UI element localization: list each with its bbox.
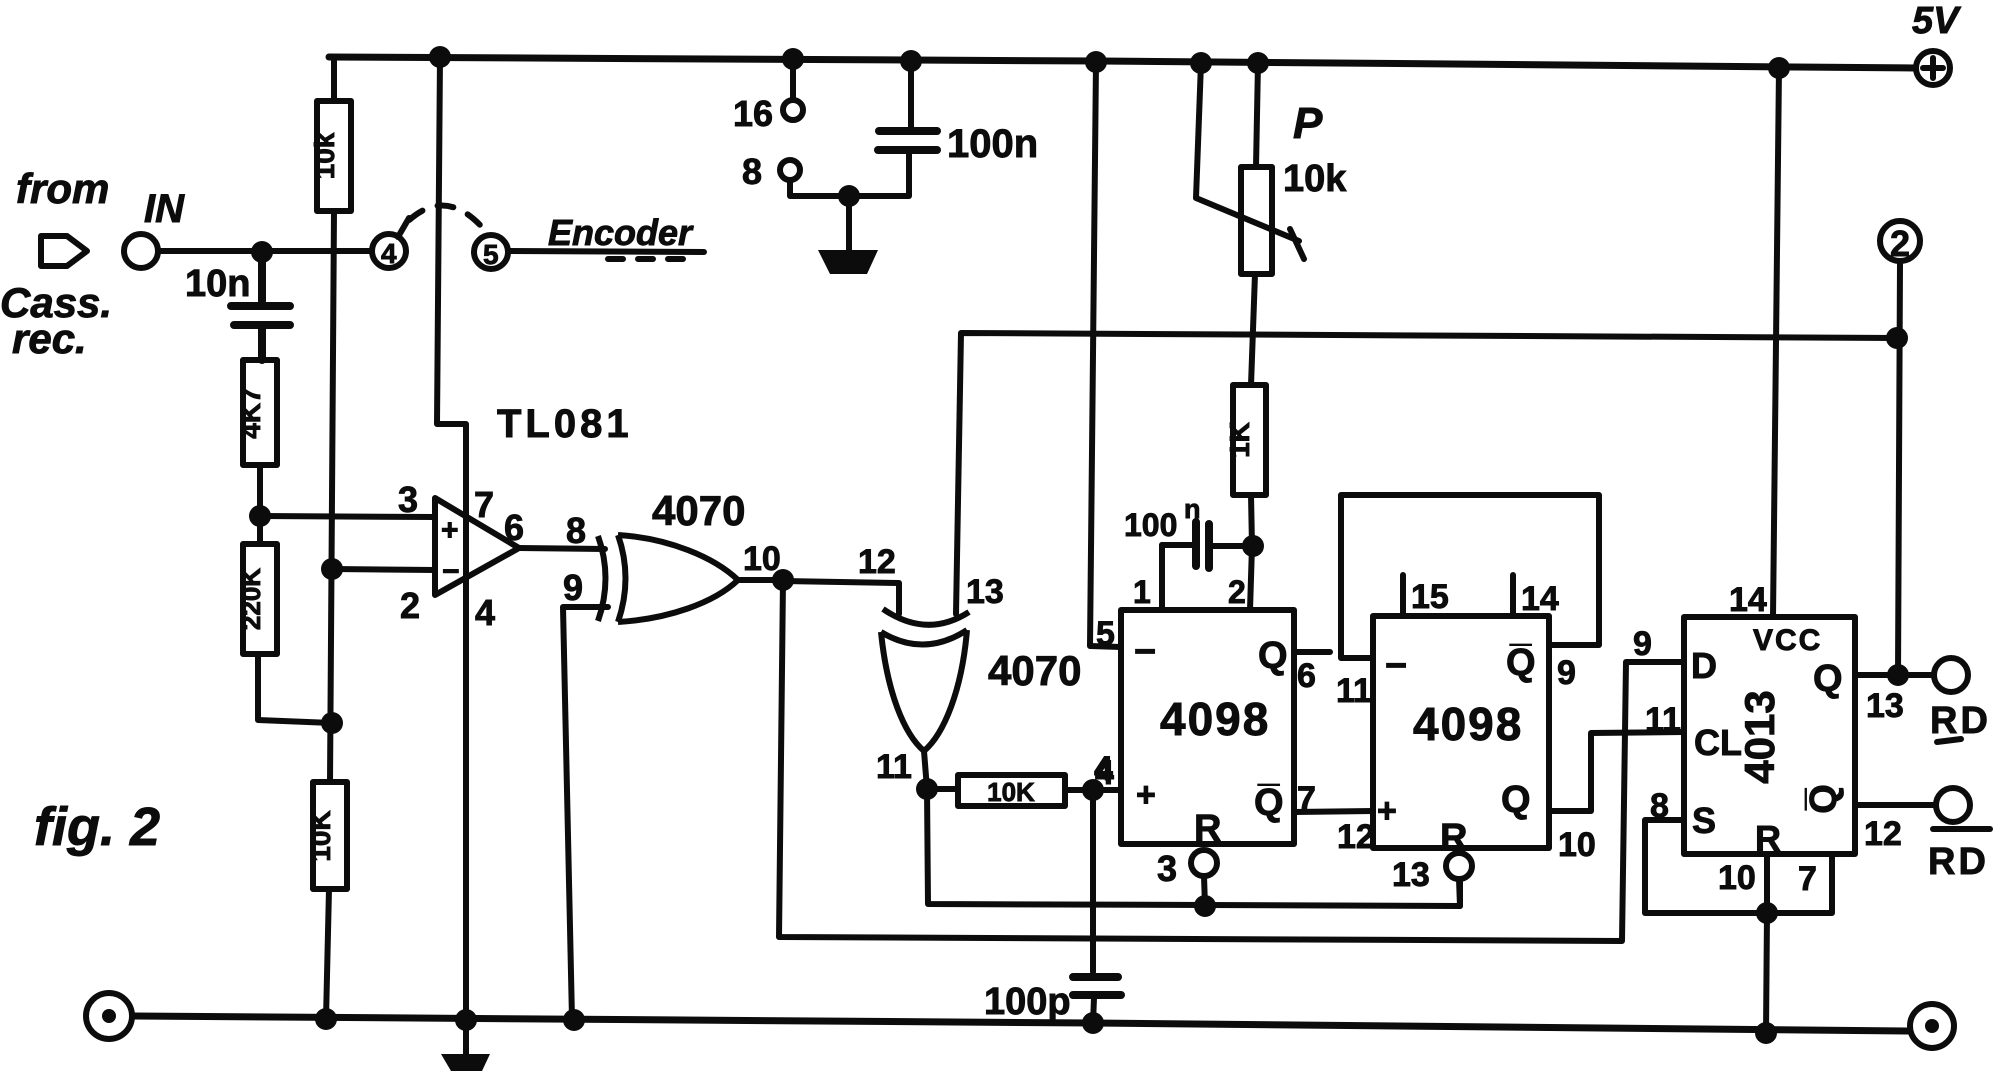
- node: feedback / terminal-2 junction: [1886, 327, 1908, 349]
- resistor 10K (trigger): [927, 786, 958, 792]
- svg-text:Encoder: Encoder: [548, 212, 694, 253]
- node: 220K bottom junction: [321, 712, 343, 734]
- node: op-amp - input junction: [321, 558, 343, 580]
- terminal IN: [124, 234, 158, 268]
- wire: XOR1 out to 4013 D (pin 9): [779, 580, 1684, 941]
- node: rail junction pot top: [1247, 52, 1269, 74]
- wire: 5V to 4098 pin 5: [1090, 62, 1121, 647]
- ground symbol top: [846, 196, 852, 251]
- svg-text:RD: RD: [1928, 841, 1989, 883]
- svg-text:5V: 5V: [1912, 0, 1961, 42]
- terminal RD: [1934, 658, 1968, 692]
- wire: 4013 Q-bar pin 12 to RD-bar terminal: [1855, 802, 1935, 808]
- wire: 0V bottom rail: [134, 1016, 1909, 1031]
- node: IN / 10n junction: [251, 241, 273, 263]
- svg-text:1: 1: [1133, 574, 1151, 610]
- svg-text:1K: 1K: [1224, 422, 1255, 458]
- wire: XOR2 output node 11: [924, 751, 927, 789]
- svg-text:+: +: [1377, 792, 1397, 830]
- svg-text:10K: 10K: [305, 810, 336, 861]
- node: 4098 pin 2 timing node: [1242, 535, 1264, 557]
- svg-text:7: 7: [1798, 860, 1817, 898]
- wire: IN to connector pin 4: [158, 248, 371, 254]
- svg-text:S: S: [1692, 800, 1716, 841]
- svg-text:10: 10: [1558, 826, 1596, 864]
- capacitor 100n (timing): [1162, 545, 1253, 546]
- svg-text:13: 13: [966, 573, 1004, 611]
- svg-text:−: −: [1385, 645, 1407, 687]
- svg-text:100p: 100p: [984, 981, 1071, 1023]
- wire: 5V top supply rail: [329, 57, 1915, 68]
- svg-text:2: 2: [400, 585, 420, 626]
- svg-text:7: 7: [474, 484, 494, 525]
- svg-text:−: −: [1134, 631, 1156, 673]
- node: bottom rail junction op-amp V-: [455, 1009, 477, 1031]
- svg-text:from: from: [16, 165, 109, 212]
- svg-text:Q̅: Q̅: [1254, 782, 1284, 824]
- svg-text:R: R: [1194, 808, 1221, 850]
- pin 14 stub: [1510, 575, 1516, 616]
- svg-text:10k: 10k: [309, 132, 340, 179]
- svg-text:4098: 4098: [1413, 698, 1523, 750]
- node: rail junction 100n cap: [900, 50, 922, 72]
- wire: 4098-2 Q pin 10 to 4013 CL pin 11: [1549, 732, 1684, 811]
- wire: pin2 stub: [1250, 546, 1252, 610]
- capacitor 100p: [1090, 790, 1096, 972]
- wire: terminal 2 drop: [1898, 263, 1900, 675]
- svg-text:Q: Q: [1813, 658, 1843, 700]
- wire: 5V to 4013 Vcc pin 14: [1773, 68, 1779, 617]
- svg-text:15: 15: [1411, 578, 1449, 616]
- node: bottom rail junction XOR pin9: [563, 1009, 585, 1031]
- svg-text:6: 6: [1297, 657, 1316, 695]
- reset pin 3 bubble of 4098 #1: [1191, 850, 1217, 876]
- svg-text:4098: 4098: [1160, 693, 1270, 745]
- svg-text:4: 4: [1095, 754, 1114, 792]
- svg-text:14: 14: [1521, 580, 1559, 618]
- svg-text:D: D: [1691, 645, 1717, 686]
- svg-text:4013: 4013: [1736, 690, 1783, 783]
- IC 4013 flip-flop: [1684, 617, 1855, 854]
- pin 15 stub: [1400, 575, 1406, 616]
- reset pin 13 bubble of 4098 #2: [1446, 853, 1472, 879]
- wire: pin 5 to encoder: [509, 251, 704, 252]
- op-amp U1 TL081: [435, 498, 519, 595]
- svg-text:rec.: rec.: [12, 315, 87, 362]
- node: Q / terminal-2 drop junction: [1887, 664, 1909, 686]
- terminal 0V left: [86, 993, 132, 1039]
- wire: pin1 stub: [1159, 545, 1165, 610]
- svg-text:RD: RD: [1930, 700, 1991, 742]
- terminal RD-bar: [1936, 788, 1970, 822]
- svg-text:8: 8: [742, 151, 762, 192]
- svg-text:+: +: [1136, 776, 1156, 814]
- svg-text:4K7: 4K7: [235, 387, 266, 438]
- svg-text:n: n: [1184, 494, 1201, 524]
- resistor 10k (top left pull-up): [331, 57, 337, 101]
- svg-text:11: 11: [876, 748, 912, 786]
- node: rail junction 4098 pin5 drop: [1085, 51, 1107, 73]
- svg-text:P: P: [1293, 99, 1323, 148]
- wire: XOR1 pin 9 to ground rail: [563, 607, 608, 1019]
- svg-text:Q̅: Q̅: [1506, 642, 1536, 684]
- wire: to op-amp pin 2: [332, 569, 435, 570]
- wire: XOR1 output node 10: [738, 577, 783, 583]
- svg-text:5: 5: [1096, 615, 1115, 653]
- svg-text:4070: 4070: [988, 647, 1081, 694]
- svg-text:3: 3: [1157, 848, 1177, 889]
- svg-text:Q: Q: [1258, 635, 1288, 677]
- jumper dashed arc pins 4-5: [405, 205, 481, 226]
- potentiometer P 10k: [1256, 63, 1258, 167]
- svg-text:9: 9: [1633, 625, 1652, 663]
- pin 6 stub (Q output nc): [1294, 649, 1330, 655]
- svg-text:3: 3: [398, 479, 418, 520]
- svg-text:TL081: TL081: [497, 402, 633, 446]
- svg-text:10n: 10n: [185, 263, 250, 305]
- svg-text:4: 4: [381, 238, 397, 269]
- svg-text:5: 5: [483, 239, 499, 270]
- resistor 10K (bottom divider): [313, 782, 347, 889]
- svg-text:100n: 100n: [947, 122, 1038, 166]
- svg-text:4: 4: [475, 592, 495, 633]
- wire: op-amp supply line pins 7/4: [437, 57, 466, 1020]
- IC 4098 #1 monostable: [1121, 610, 1294, 844]
- svg-text:100: 100: [1124, 507, 1177, 543]
- resistor 4K7: [243, 360, 277, 465]
- wire: to op-amp pin 3: [260, 516, 435, 517]
- terminal 2: [1880, 221, 1920, 261]
- node: reset line junction at 4098-1: [1194, 895, 1216, 917]
- pin 8 stub to ground: [780, 160, 800, 180]
- svg-text:12: 12: [858, 543, 896, 581]
- svg-text:10: 10: [1718, 859, 1756, 897]
- resistor 220K: [257, 516, 263, 544]
- node: op-amp + input junction: [249, 505, 271, 527]
- node: reset-ground junction: [1756, 902, 1778, 924]
- pot wiper from 5V: [1196, 63, 1304, 259]
- svg-text:11: 11: [1645, 701, 1681, 739]
- svg-text:2: 2: [1890, 223, 1910, 264]
- node: rail junction above op-amp supply: [429, 46, 451, 68]
- node: rail junction pin16 drop: [782, 48, 804, 70]
- XOR gate 4070 B: [883, 609, 969, 625]
- svg-text:13: 13: [1866, 687, 1904, 725]
- connector pin 5: [474, 235, 508, 269]
- svg-text:2: 2: [1228, 574, 1246, 610]
- wire: XOR2 output to monostable resets: [927, 789, 1460, 906]
- terminal 5V plus: [1916, 51, 1950, 85]
- wire: 4013 S pin 8 / R pin 10 / pin 7 to ground: [1645, 820, 1832, 1033]
- svg-text:16: 16: [733, 93, 773, 134]
- svg-text:11: 11: [1336, 672, 1372, 710]
- svg-text:10k: 10k: [1283, 158, 1347, 200]
- wire: bias divider vertical: [330, 211, 334, 782]
- pin 16 stub of encoder IC: [790, 59, 796, 100]
- wire: XOR1 out to XOR2 pin 12: [783, 581, 899, 614]
- svg-text:−: −: [442, 555, 460, 588]
- XOR gate 4070 A: [598, 536, 606, 621]
- node: pin8 ground junction: [838, 185, 860, 207]
- svg-text:6: 6: [504, 507, 524, 548]
- svg-text:7: 7: [1297, 780, 1316, 818]
- node: bottom rail junction 100p: [1082, 1012, 1104, 1034]
- svg-text:Q: Q: [1501, 779, 1531, 821]
- wire: op-amp output to XOR1 pin 8: [519, 548, 605, 549]
- icon: arrow from cassette recorder: [41, 236, 87, 266]
- wire: feedback from RD line to XOR2 pin 13: [956, 333, 1897, 614]
- resistor 1K: [1233, 385, 1266, 495]
- capacitor 100n (supply decoupling): [908, 61, 914, 127]
- svg-text:14: 14: [1729, 581, 1767, 619]
- svg-text:12: 12: [1337, 818, 1375, 856]
- svg-text:IN: IN: [144, 187, 185, 231]
- node: rail junction 4013 Vcc drop: [1768, 57, 1790, 79]
- svg-text:4070: 4070: [652, 487, 745, 534]
- capacitor 10n: [231, 252, 290, 360]
- connector pin 4: [372, 234, 406, 268]
- node: bottom rail junction 10K divider: [315, 1008, 337, 1030]
- svg-text:Q̅: Q̅: [1803, 784, 1845, 814]
- wire: 4013 Q pin 13 to RD terminal: [1855, 672, 1932, 678]
- wire: 4098-1 Q-bar pin 7 to 4098-2 + pin 12: [1294, 811, 1373, 812]
- svg-text:+: +: [441, 514, 459, 547]
- svg-text:VCC: VCC: [1753, 624, 1822, 657]
- svg-text:8: 8: [566, 510, 586, 551]
- svg-text:220K: 220K: [236, 568, 266, 630]
- IC 4098 #2 monostable: [1373, 616, 1549, 848]
- terminal 0V right: [1910, 1004, 1954, 1048]
- svg-text:CL: CL: [1694, 722, 1742, 763]
- ground symbol below op-amp: [463, 1020, 469, 1056]
- wire: 4098-2 Q-bar pin 9 feedback loop to - input pin 11: [1341, 495, 1599, 658]
- node: 4098 pin 4 trigger node: [1082, 779, 1104, 801]
- node: rail junction pot wiper: [1190, 52, 1212, 74]
- svg-text:9: 9: [563, 567, 583, 608]
- svg-text:10K: 10K: [987, 777, 1035, 807]
- svg-text:9: 9: [1557, 654, 1576, 692]
- svg-text:8: 8: [1650, 787, 1669, 825]
- svg-text:13: 13: [1392, 856, 1430, 894]
- node: bottom rail junction 4013 reset: [1755, 1022, 1777, 1044]
- svg-text:12: 12: [1864, 815, 1902, 853]
- svg-text:fig. 2: fig. 2: [34, 797, 160, 857]
